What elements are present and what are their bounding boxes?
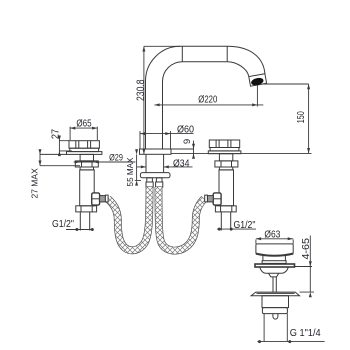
left valve handle knob: [69, 141, 99, 149]
dim 27 line: [59, 136, 72, 155]
G1/2 left dots: [75, 228, 78, 231]
Ø63 arrows: [256, 237, 261, 240]
dim G1/2 right line: [217, 228, 256, 230]
right valve outlet ring: [205, 195, 208, 202]
svg-text:G1/2": G1/2": [52, 219, 74, 230]
right valve hex nut: [215, 161, 238, 167]
dim G1 1/4 line: [258, 341, 325, 343]
left valve outlet cylinder: [100, 196, 106, 202]
left handle facet lines: [76, 141, 91, 149]
svg-text:27 MAX: 27 MAX: [30, 168, 40, 199]
spout joint line 2: [226, 46, 228, 61]
G1/2 right dots: [218, 228, 221, 231]
dim 4-65 line: [295, 236, 315, 293]
svg-text:27: 27: [50, 129, 61, 140]
9 arrows: [192, 144, 195, 149]
svg-text:Ø29: Ø29: [109, 151, 123, 162]
27 arrows: [58, 136, 61, 141]
left hose (braided): [108, 187, 150, 250]
left valve hex nut: [75, 161, 98, 167]
spout outline (tube, elbow, top run): [146, 46, 265, 149]
left valve base plate: [67, 152, 102, 155]
spout base plate: [140, 149, 172, 154]
svg-text:Ø220: Ø220: [198, 94, 217, 105]
left valve stem: [80, 154, 93, 161]
svg-text:Ø63: Ø63: [264, 229, 280, 240]
left valve body: [80, 170, 95, 206]
drain nut band: [262, 308, 287, 314]
left valve tail pipe: [80, 212, 89, 231]
left valve side outlet nut: [92, 193, 100, 205]
dim 230.8 line: [144, 46, 180, 154]
Ø29 arrows: [75, 161, 80, 164]
drain upper cylinder: [263, 256, 286, 261]
spout hose nut left: [146, 182, 153, 187]
spout hose stub left: [147, 178, 153, 182]
drain body: [262, 296, 289, 308]
left valve outlet ring: [105, 195, 108, 202]
svg-text:55 MAX: 55 MAX: [125, 157, 135, 186]
right valve handle knob: [209, 140, 239, 148]
230.8 arrows: [142, 46, 145, 51]
left handle skirt: [70, 148, 99, 151]
drain washer plate (thick): [255, 264, 295, 267]
Ø220 arrows: [154, 103, 159, 106]
deck line left segment: [40, 153, 67, 155]
dim Ø65 line: [70, 127, 97, 140]
right valve tail pipe: [221, 212, 230, 231]
drain cap (clic-clac): [256, 244, 293, 254]
left valve collar nut: [76, 206, 97, 212]
right hose (braided): [159, 187, 205, 251]
right valve body: [219, 170, 234, 206]
right valve stem: [219, 154, 232, 161]
dim 9 line: [171, 141, 194, 158]
right valve collar nut: [215, 206, 236, 212]
55MAX arrows: [135, 149, 138, 154]
spout hose nut right: [156, 182, 163, 187]
dim Ø60 line: [140, 131, 194, 149]
right handle skirt: [210, 148, 239, 151]
svg-text:150: 150: [296, 111, 307, 123]
drain collar band: [262, 261, 286, 264]
dim Ø220 line: [154, 86, 263, 107]
drain pipe sides / extension lines: [264, 314, 287, 342]
right valve outlet cylinder: [207, 196, 213, 202]
svg-text:G1/2": G1/2": [234, 220, 256, 231]
dim Ø29 line: [74, 161, 136, 163]
drain bowl: [260, 267, 289, 273]
svg-text:4-65: 4-65: [301, 238, 312, 260]
spout shank below deck: [146, 154, 164, 172]
svg-text:Ø34: Ø34: [173, 158, 190, 169]
dim 150 line: [263, 84, 309, 153]
right valve neck: [219, 167, 232, 170]
Ø65 arrows: [70, 127, 75, 130]
dim 55MAX line: [135, 155, 141, 181]
drain taper: [269, 273, 279, 277]
drain cap bottom thick arc: [256, 254, 293, 256]
drain stem: [273, 277, 276, 292]
G1 1/4 dots: [258, 340, 261, 343]
spout hose stub right: [156, 178, 162, 182]
svg-text:G 1"1/4: G 1"1/4: [290, 328, 321, 339]
right handle facet lines: [216, 140, 231, 148]
svg-text:Ø65: Ø65: [76, 118, 91, 129]
right valve base plate: [208, 151, 241, 154]
left valve neck: [80, 167, 93, 170]
dim 27MAX line: [39, 150, 41, 166]
150 arrows: [307, 84, 310, 89]
right valve side outlet nut: [213, 193, 221, 205]
drain flange: [251, 292, 299, 296]
27MAX arrows: [39, 149, 42, 154]
spout joint line 1: [181, 46, 183, 61]
4-65 arrows: [309, 261, 312, 266]
dim G1/2 left line: [66, 229, 93, 231]
dim Ø34 line: [137, 166, 193, 168]
arrowheads: [39, 46, 312, 343]
spout tip aerator holder: [249, 74, 267, 87]
Ø34 arrows: [141, 165, 146, 168]
spout aerator black ellipse: [250, 77, 264, 87]
svg-text:Ø60: Ø60: [177, 125, 194, 136]
spout under-deck washer: [140, 173, 170, 178]
svg-text:9: 9: [182, 139, 193, 144]
drain U hook: [273, 314, 278, 320]
27MAX lower extension line: [40, 165, 80, 167]
dim Ø63 line: [256, 239, 293, 244]
svg-text:230.8: 230.8: [135, 79, 147, 101]
Ø60 arrows: [140, 132, 145, 135]
deck line right segment: [171, 153, 312, 155]
